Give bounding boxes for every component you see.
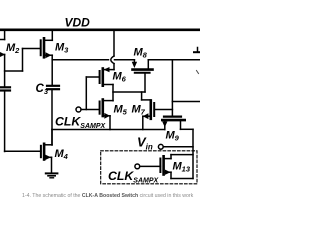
wire hop crossing at M6 source riser: [111, 56, 114, 64]
dashed box (sampling switch): [101, 151, 197, 184]
transistor M3 (PMOS): [41, 31, 53, 85]
transistor M8 (PMOS, horizontal): [132, 60, 153, 92]
CLKSAMPX input node (upper): [76, 77, 100, 112]
CLKSAMPX input node (lower): [135, 164, 160, 169]
svg-text:1-4. The schematic of the CLK: 1-4. The schematic of the CLK-A Boosted …: [22, 193, 194, 199]
transistor M9 (NMOS, horizontal, gate on top): [162, 117, 193, 179]
wire M2 drain to M3 gate: [5, 49, 40, 72]
capacitor C2 (unlabeled, left): [1, 87, 11, 151]
transistor M5 (NMOS): [100, 100, 113, 130]
transistor M13 (NMOS): [160, 155, 193, 179]
capacitor C3: [47, 86, 59, 145]
mid rail (M6 drain / M8 gate / M5 M7 drains): [113, 91, 145, 93]
Vin input node: [158, 144, 193, 149]
wire node boost (y59) M3 drain to right: [52, 59, 108, 61]
VDD rail: [0, 28, 200, 31]
transistor M4 (NMOS): [5, 130, 52, 174]
transistor M6 (PMOS): [86, 67, 114, 101]
transistor M7 (NMOS, mirrored): [142, 92, 173, 130]
wire to right edge (y101.5): [172, 101, 200, 103]
right edge fragment (cropped device top): [194, 48, 200, 74]
ground: [46, 173, 58, 177]
svg-text:VDD: VDD: [65, 16, 91, 30]
wire boost node bottom (M4 drain to M9 source): [52, 129, 165, 131]
transistor M2 (PMOS, cropped at left edge): [0, 31, 5, 87]
M9 gate riser from y59 net: [171, 60, 173, 116]
M6 source riser from VDD: [113, 31, 115, 70]
